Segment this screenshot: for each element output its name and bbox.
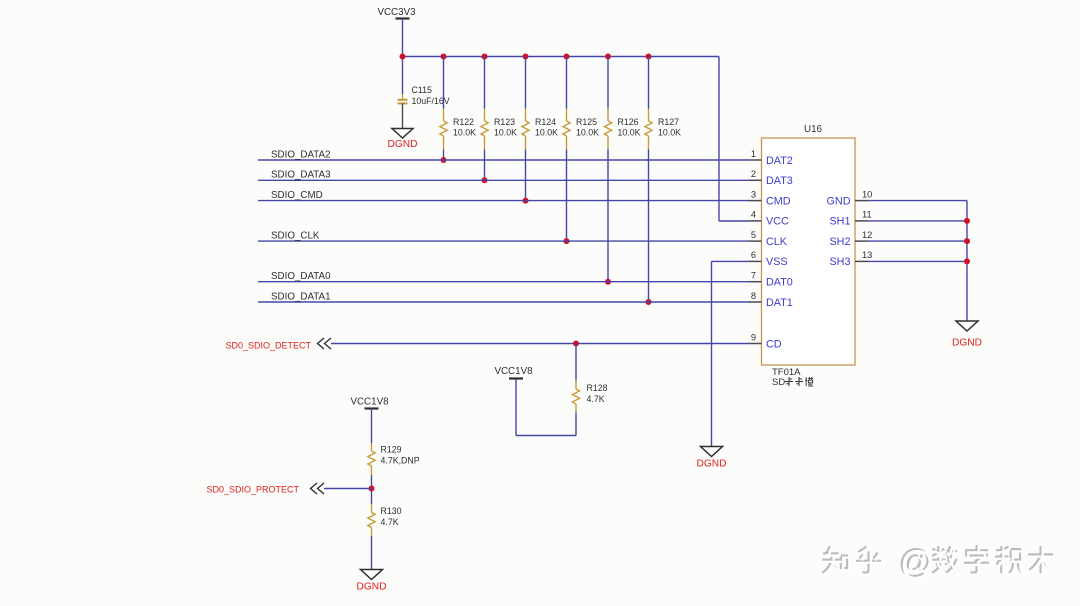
- svg-text:R129: R129: [381, 445, 402, 455]
- svg-text:6: 6: [751, 250, 756, 260]
- svg-text:DAT0: DAT0: [766, 277, 793, 289]
- svg-text:VCC: VCC: [766, 216, 789, 228]
- svg-text:12: 12: [862, 230, 872, 240]
- svg-text:SD0_SDIO_DETECT: SD0_SDIO_DETECT: [225, 341, 311, 351]
- svg-text:C115: C115: [412, 85, 432, 95]
- svg-text:SDIO_DATA3: SDIO_DATA3: [271, 170, 331, 181]
- svg-text:7: 7: [751, 271, 756, 281]
- svg-text:8: 8: [751, 291, 756, 301]
- svg-text:4.7K: 4.7K: [381, 517, 399, 527]
- svg-text:13: 13: [862, 250, 872, 260]
- svg-text:10.0K: 10.0K: [494, 128, 517, 138]
- svg-text:3: 3: [751, 189, 756, 199]
- svg-text:SH1: SH1: [829, 216, 850, 228]
- svg-text:CLK: CLK: [766, 236, 788, 248]
- svg-text:VSS: VSS: [766, 256, 788, 268]
- svg-text:4.7K,DNP: 4.7K,DNP: [381, 456, 420, 466]
- svg-text:10.0K: 10.0K: [535, 128, 558, 138]
- svg-text:R127: R127: [658, 117, 679, 127]
- svg-text:VCC3V3: VCC3V3: [377, 7, 416, 18]
- svg-text:CMD: CMD: [766, 195, 791, 207]
- svg-text:DAT3: DAT3: [766, 175, 793, 187]
- svg-text:R130: R130: [381, 506, 402, 516]
- svg-text:10.0K: 10.0K: [618, 128, 641, 138]
- svg-text:CD: CD: [766, 338, 782, 350]
- svg-text:1: 1: [751, 149, 756, 159]
- svg-text:R125: R125: [576, 117, 597, 127]
- svg-text:SDIO_DATA2: SDIO_DATA2: [271, 149, 331, 160]
- svg-text:@: @: [900, 544, 934, 581]
- svg-text:SDIO_DATA0: SDIO_DATA0: [271, 271, 331, 282]
- svg-text:4: 4: [751, 210, 756, 220]
- svg-text:DGND: DGND: [697, 459, 727, 470]
- svg-text:DGND: DGND: [952, 338, 982, 349]
- svg-text:10.0K: 10.0K: [658, 128, 681, 138]
- svg-text:U16: U16: [804, 124, 823, 135]
- svg-text:R123: R123: [494, 117, 515, 127]
- svg-text:SD: SD: [772, 377, 785, 388]
- svg-text:R128: R128: [587, 383, 608, 393]
- svg-text:VCC1V8: VCC1V8: [350, 397, 389, 408]
- svg-text:SH3: SH3: [829, 256, 850, 268]
- svg-text:R124: R124: [535, 117, 556, 127]
- svg-text:10: 10: [862, 189, 872, 199]
- svg-text:GND: GND: [827, 195, 851, 207]
- svg-text:DGND: DGND: [388, 139, 418, 150]
- svg-text:SD0_SDIO_PROTECT: SD0_SDIO_PROTECT: [206, 484, 299, 494]
- svg-text:9: 9: [751, 332, 756, 342]
- svg-text:SDIO_CLK: SDIO_CLK: [271, 231, 320, 242]
- svg-text:DAT1: DAT1: [766, 297, 793, 309]
- svg-text:4.7K: 4.7K: [587, 394, 605, 404]
- svg-text:2: 2: [751, 169, 756, 179]
- svg-text:R122: R122: [453, 117, 474, 127]
- svg-text:10.0K: 10.0K: [453, 128, 476, 138]
- svg-text:SDIO_DATA1: SDIO_DATA1: [271, 291, 331, 302]
- svg-text:10.0K: 10.0K: [576, 128, 599, 138]
- svg-text:DGND: DGND: [357, 582, 387, 593]
- svg-text:VCC1V8: VCC1V8: [494, 366, 533, 377]
- svg-text:11: 11: [862, 210, 872, 220]
- svg-text:SDIO_CMD: SDIO_CMD: [271, 190, 323, 201]
- svg-text:SH2: SH2: [829, 236, 850, 248]
- svg-text:R126: R126: [618, 117, 639, 127]
- svg-text:5: 5: [751, 230, 756, 240]
- svg-text:DAT2: DAT2: [766, 155, 793, 167]
